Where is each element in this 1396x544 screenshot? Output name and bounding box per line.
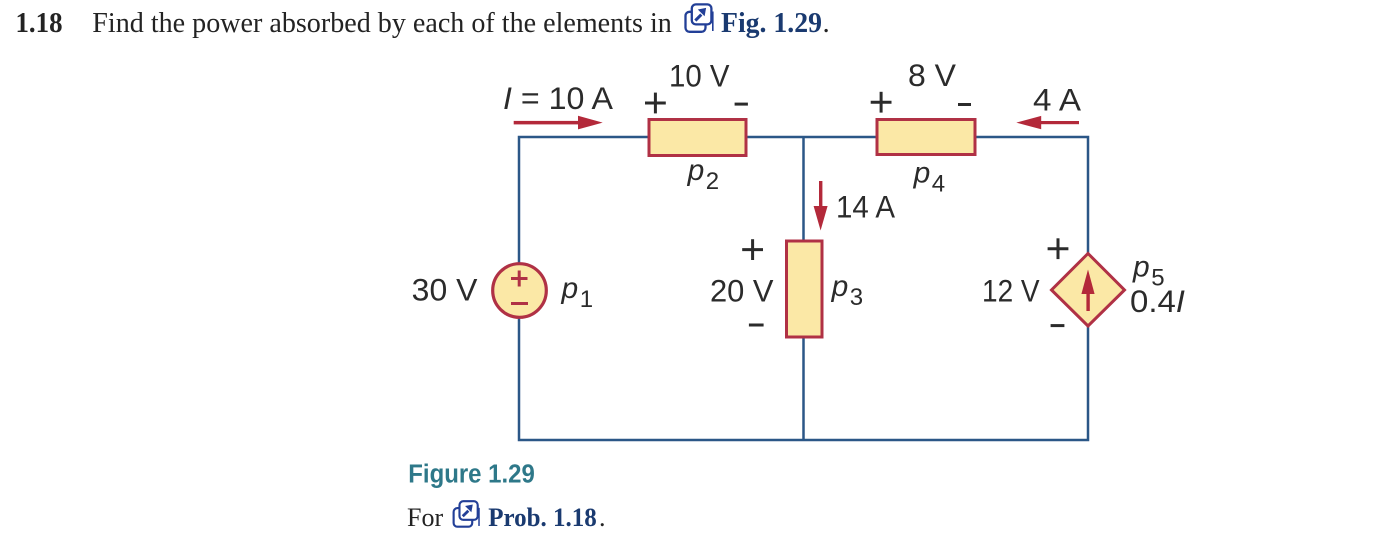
svg-text:Find the power absorbed by eac: Find the power absorbed by each of the e… [92, 7, 672, 39]
svg-text:I = 10 A: I = 10 A [503, 80, 613, 116]
svg-text:p4: p4 [913, 157, 946, 198]
svg-text:For: For [407, 503, 443, 532]
svg-text:10 V: 10 V [669, 58, 730, 94]
svg-text:.: . [599, 503, 606, 532]
svg-text:8 V: 8 V [908, 57, 956, 93]
svg-text:Prob. 1.18: Prob. 1.18 [488, 503, 597, 532]
svg-text:1.18: 1.18 [16, 7, 63, 39]
svg-text:p1: p1 [561, 272, 594, 313]
svg-text:.: . [823, 7, 830, 39]
svg-text:Figure 1.29: Figure 1.29 [408, 460, 535, 488]
svg-text:p2: p2 [687, 154, 720, 195]
svg-text:14 A: 14 A [836, 189, 895, 225]
svg-text:20 V: 20 V [710, 273, 774, 309]
svg-text:4 A: 4 A [1033, 82, 1081, 118]
svg-text:12 V: 12 V [982, 273, 1040, 309]
svg-text:30 V: 30 V [412, 272, 478, 308]
svg-text:Fig. 1.29: Fig. 1.29 [721, 7, 822, 39]
svg-text:p3: p3 [831, 270, 864, 311]
